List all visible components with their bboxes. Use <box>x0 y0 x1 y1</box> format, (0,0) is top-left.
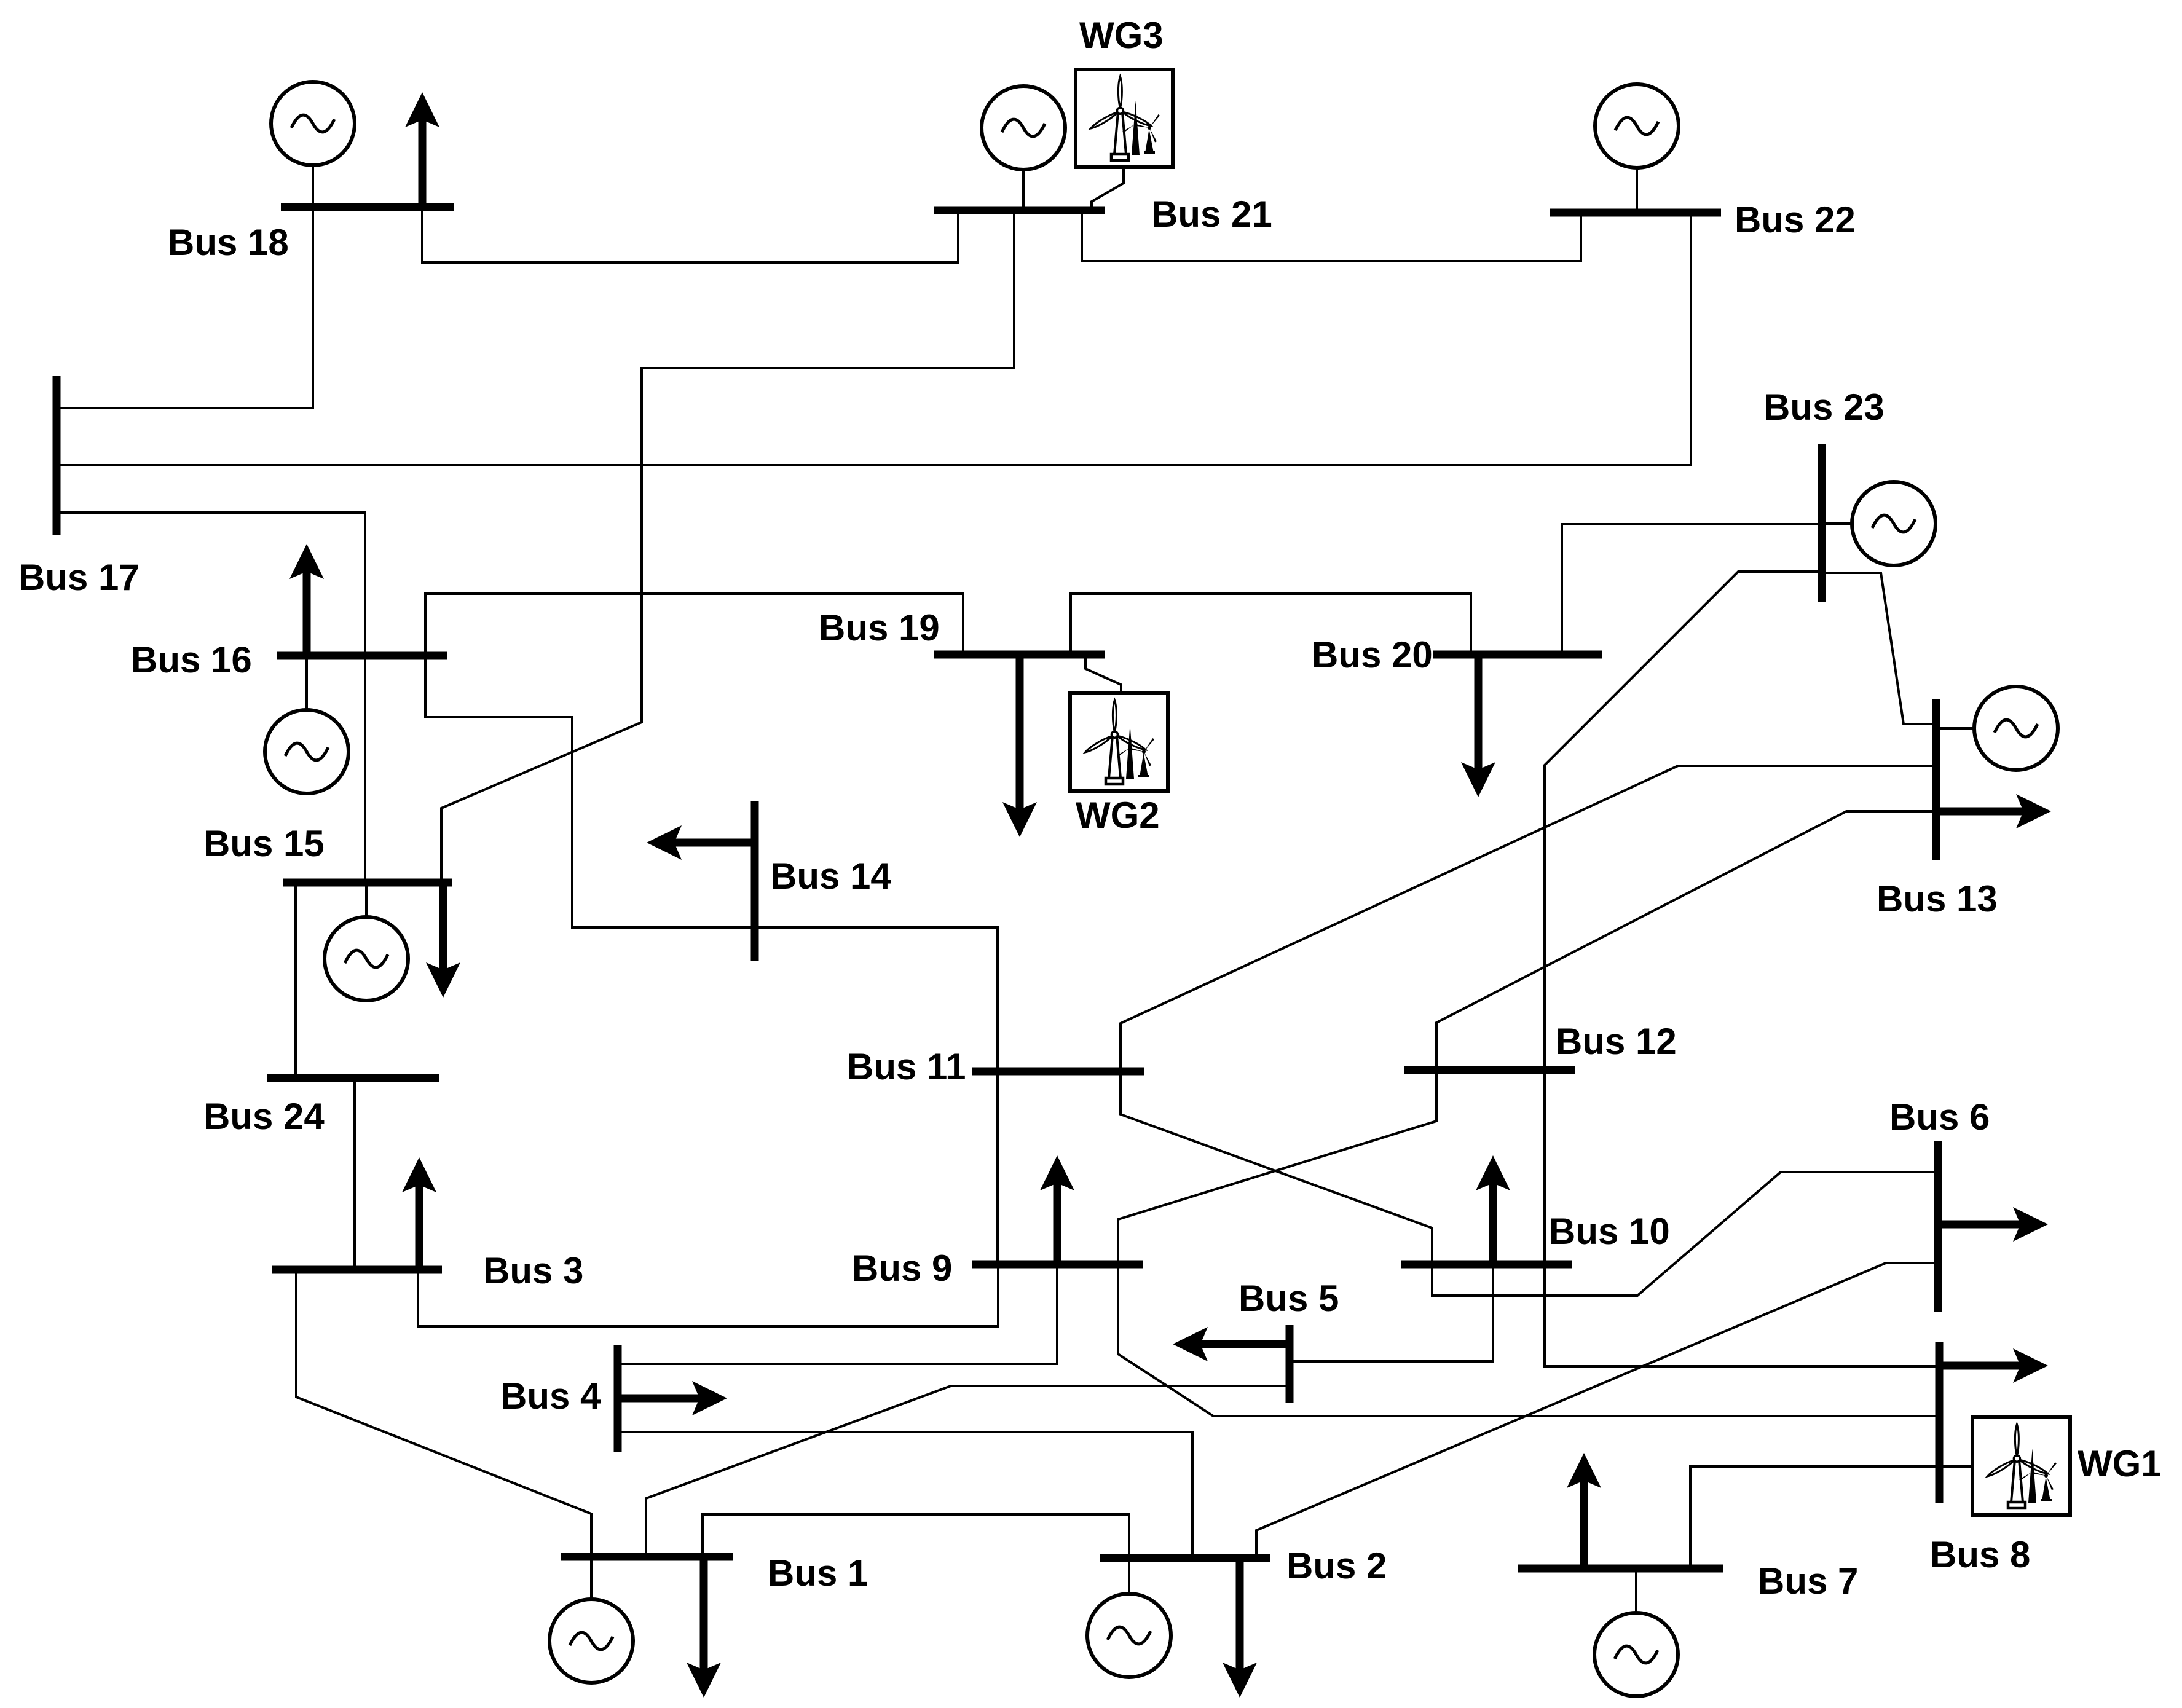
load arrow at Bus 18 <box>405 92 439 207</box>
svg-text:Bus 13: Bus 13 <box>1877 878 1998 919</box>
bus bar Bus 14 <box>751 801 759 961</box>
load arrow at Bus 8 <box>1939 1348 2048 1383</box>
svg-text:Bus 9: Bus 9 <box>852 1248 952 1289</box>
svg-text:WG3: WG3 <box>1079 15 1164 56</box>
wire WG2 connection <box>1085 655 1121 693</box>
svg-text:WG2: WG2 <box>1076 795 1160 836</box>
bus bar Bus 6 <box>1934 1141 1942 1312</box>
bus bar Bus 22 <box>1550 209 1721 217</box>
wire line 16-17 <box>57 513 365 656</box>
wire line 11-14 <box>755 927 998 1071</box>
wire line 19-20 <box>1071 594 1471 655</box>
svg-text:WG1: WG1 <box>2078 1443 2162 1484</box>
bus bar Bus 13 <box>1932 699 1940 860</box>
bus bar Bus 18 <box>281 203 454 211</box>
bus bar Bus 24 <box>267 1074 439 1082</box>
load arrow at Bus 10 <box>1476 1155 1510 1264</box>
wire line 3-24 <box>353 1078 356 1270</box>
load arrow at Bus 15 <box>426 883 460 998</box>
wire line 1-2 <box>703 1514 1129 1558</box>
svg-text:Bus 17: Bus 17 <box>18 557 140 598</box>
generator at Bus 16 <box>265 656 349 793</box>
svg-text:Bus 19: Bus 19 <box>819 607 940 648</box>
bus bar Bus 7 <box>1518 1565 1723 1573</box>
svg-text:Bus 12: Bus 12 <box>1556 1021 1677 1062</box>
wire line 10-12 <box>1543 1070 1546 1264</box>
wire line 10-11 <box>1121 1071 1432 1264</box>
generator at Bus 23 <box>1822 482 1936 565</box>
svg-text:Bus 7: Bus 7 <box>1758 1560 1858 1602</box>
load arrow at Bus 14 <box>647 825 755 860</box>
bus bar Bus 16 <box>277 652 447 660</box>
wire line 12-23 <box>1545 572 1822 1070</box>
wire WG3 connection <box>1092 167 1124 210</box>
bus bar Bus 8 <box>1936 1342 1944 1503</box>
wire line 11-13 <box>1121 766 1936 1071</box>
load arrow at Bus 20 <box>1461 655 1495 797</box>
svg-text:Bus 23: Bus 23 <box>1763 387 1885 428</box>
svg-text:Bus 2: Bus 2 <box>1286 1545 1387 1586</box>
load arrow at Bus 6 <box>1938 1207 2048 1242</box>
wire line 1-3 <box>296 1270 591 1557</box>
bus bar Bus 21 <box>934 207 1105 214</box>
wire line 6-10 <box>1432 1172 1938 1296</box>
bus bar Bus 20 <box>1433 651 1602 659</box>
load arrow at Bus 3 <box>402 1157 436 1270</box>
wire line 8-10 <box>1545 1264 1939 1366</box>
wire line 3-9 <box>418 1264 998 1326</box>
generator at Bus 18 <box>271 82 355 207</box>
generator at Bus 21 <box>982 86 1065 210</box>
generator at Bus 7 <box>1594 1568 1678 1696</box>
wire line 20-23 <box>1562 524 1822 655</box>
wire line 15-24 <box>294 883 297 1078</box>
wire line 15-21 <box>441 210 1014 883</box>
generator at Bus 22 <box>1595 84 1679 213</box>
bus bar Bus 4 <box>614 1345 622 1452</box>
svg-text:Bus 11: Bus 11 <box>847 1046 966 1087</box>
wire line 5-10 <box>1290 1264 1493 1361</box>
wire line 4-9 <box>618 1264 1057 1364</box>
wire WG1 connection stub <box>1939 1465 1972 1468</box>
bus bar Bus 10 <box>1401 1261 1572 1269</box>
wire line 9-11 <box>996 1071 999 1264</box>
svg-text:Bus 24: Bus 24 <box>203 1096 325 1137</box>
wire line 16-19 <box>425 594 963 656</box>
svg-text:Bus 3: Bus 3 <box>483 1250 583 1291</box>
wire line 2-6 <box>1256 1263 1938 1558</box>
generator at Bus 1 <box>549 1557 633 1683</box>
load arrow at Bus 19 <box>1002 655 1037 837</box>
generator at Bus 2 <box>1087 1558 1171 1677</box>
bus bar Bus 15 <box>283 879 452 887</box>
wire line 18-21 <box>422 207 958 262</box>
svg-text:Bus 1: Bus 1 <box>768 1553 868 1594</box>
wire line 15-16 <box>364 656 366 883</box>
wire line 8-9 <box>1118 1264 1939 1416</box>
bus bar Bus 2 <box>1100 1554 1270 1562</box>
wire line 9-12 <box>1118 1070 1436 1264</box>
wire line 2-4 <box>618 1432 1192 1558</box>
svg-text:Bus 4: Bus 4 <box>500 1375 601 1417</box>
bus bar Bus 12 <box>1404 1066 1575 1074</box>
load arrow at Bus 7 <box>1567 1453 1601 1568</box>
load arrow at Bus 5 <box>1173 1327 1290 1361</box>
load arrow at Bus 9 <box>1040 1155 1074 1264</box>
wire line 14-16 <box>425 656 755 927</box>
svg-text:Bus 18: Bus 18 <box>168 222 289 263</box>
wire line 17-22 <box>57 213 1691 465</box>
svg-text:Bus 14: Bus 14 <box>770 856 891 897</box>
generator at Bus 15 <box>325 883 408 1001</box>
wire line 21-22 <box>1082 210 1581 261</box>
bus bar Bus 9 <box>972 1261 1143 1269</box>
load arrow at Bus 2 <box>1223 1558 1257 1698</box>
wind generator WG1 box <box>1972 1417 2070 1515</box>
load arrow at Bus 16 <box>289 544 324 656</box>
bus bar Bus 3 <box>272 1266 442 1274</box>
wire line 13-23 <box>1822 573 1936 724</box>
wire line 7-8 <box>1690 1466 1939 1568</box>
bus bar Bus 11 <box>972 1068 1144 1076</box>
svg-text:Bus 5: Bus 5 <box>1239 1278 1339 1319</box>
svg-text:Bus 20: Bus 20 <box>1312 634 1433 675</box>
bus bar Bus 17 <box>53 376 61 535</box>
bus bar Bus 19 <box>934 651 1105 659</box>
svg-text:Bus 22: Bus 22 <box>1735 199 1856 240</box>
svg-text:Bus 15: Bus 15 <box>203 823 325 864</box>
generator at Bus 13 <box>1936 687 2058 770</box>
wind generator WG2 box <box>1070 693 1168 791</box>
svg-text:Bus 21: Bus 21 <box>1151 194 1272 235</box>
wire line 12-13 <box>1436 811 1936 1070</box>
svg-text:Bus 6: Bus 6 <box>1889 1096 1990 1138</box>
svg-text:Bus 8: Bus 8 <box>1930 1534 2030 1575</box>
wire line 1-5 <box>646 1386 1290 1557</box>
bus bar Bus 5 <box>1286 1325 1294 1403</box>
svg-text:Bus 10: Bus 10 <box>1549 1211 1670 1252</box>
wind generator WG3 box <box>1076 69 1173 167</box>
wire line 17-18 <box>57 207 313 408</box>
bus bar Bus 1 <box>561 1553 733 1561</box>
load arrow at Bus 1 <box>687 1557 721 1698</box>
load arrow at Bus 4 <box>618 1381 727 1415</box>
bus bar Bus 23 <box>1818 444 1826 602</box>
svg-text:Bus 16: Bus 16 <box>131 639 252 680</box>
load arrow at Bus 13 <box>1936 794 2051 828</box>
